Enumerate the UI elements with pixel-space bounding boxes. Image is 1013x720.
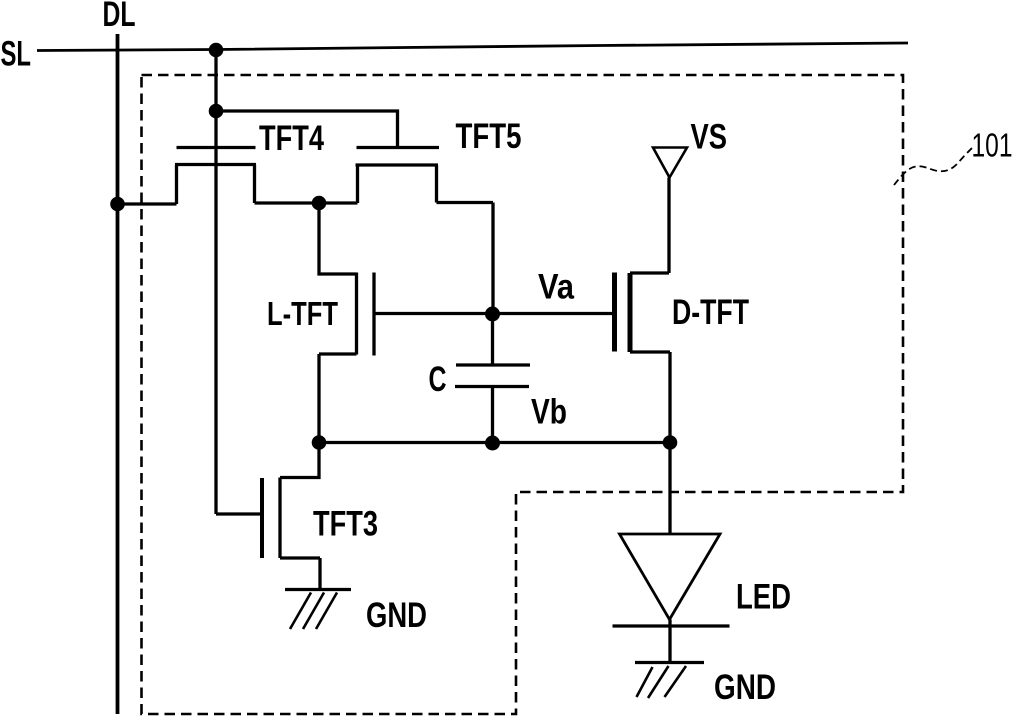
capacitor C top plate (456, 363, 530, 366)
wire: L-TFT source down to bottom rail (319, 354, 357, 443)
wire: D-TFT source lead (630, 352, 670, 443)
node: dot bottom rail right (663, 435, 678, 450)
transistor TFT5 gate bar (357, 146, 440, 149)
transistor TFT3 gate bar (260, 478, 264, 558)
transistor L-TFT channel bar (355, 273, 358, 355)
ground GND left bar (285, 588, 351, 591)
ground GND right slash 1 (665, 666, 687, 697)
ground GND right bar (635, 661, 704, 664)
wire: TFT3 drain lead (280, 443, 319, 478)
ground GND left slash 2 (303, 593, 324, 630)
svg-text:101: 101 (972, 127, 1013, 164)
ground GND right slash 3 (637, 667, 653, 697)
transistor TFT4 channel bar (175, 163, 256, 166)
wire: node Va to D-TFT gate (493, 312, 613, 315)
svg-text:Vb: Vb (531, 393, 567, 432)
svg-text:VS: VS (691, 118, 728, 157)
wire: SL branch vertical down to TFT3 gate (214, 50, 217, 514)
capacitor C bottom lead (491, 387, 494, 444)
wire: DL to TFT4 source (118, 202, 177, 205)
wire: TFT5 drain to Va column (437, 203, 494, 315)
capacitor C top lead (491, 314, 494, 365)
data line DL (116, 34, 120, 714)
svg-text:TFT5: TFT5 (456, 117, 522, 156)
node Va dot (485, 307, 500, 322)
node: dot at L-TFT branch (312, 196, 327, 211)
transistor TFT4 source stub (175, 165, 178, 205)
node: dot on DL (110, 197, 125, 212)
svg-text:L-TFT: L-TFT (267, 295, 338, 332)
power VS triangle (653, 148, 687, 178)
node: branch dot at TFT5 gate tee (209, 104, 224, 119)
wire: LED anode lead (668, 443, 671, 535)
wire: L-TFT drain from dot (319, 203, 357, 274)
transistor TFT5 drain stub (435, 165, 438, 203)
svg-text:GND: GND (714, 668, 776, 707)
node: dot bottom rail under C (485, 436, 500, 451)
diode LED triangle (620, 534, 721, 620)
wire: TFT5 gate lead (216, 111, 398, 147)
svg-text:TFT4: TFT4 (259, 119, 324, 158)
svg-text:LED: LED (736, 578, 791, 617)
diode LED cathode bar (613, 624, 730, 627)
wire: L-TFT gate lead to node Va (374, 312, 493, 315)
ground GND left slash 3 (290, 593, 311, 630)
wire: D-TFT drain lead (630, 178, 669, 274)
ground GND right slash 2 (648, 666, 669, 698)
svg-text:SL: SL (1, 35, 32, 74)
wire: bottom rail (319, 441, 670, 444)
wire: LED cathode to ground (668, 620, 671, 663)
svg-text:Va: Va (538, 268, 574, 307)
transistor TFT5 source stub (356, 165, 359, 203)
svg-text:D-TFT: D-TFT (672, 293, 749, 332)
capacitor C bottom plate (455, 385, 529, 388)
node: SL junction dot (209, 43, 224, 58)
wire: TFT3 source lead (280, 558, 320, 590)
leader squiggle to 101 (894, 148, 972, 185)
transistor TFT3 channel bar (278, 478, 281, 559)
transistor L-TFT gate bar (372, 273, 375, 356)
svg-text:GND: GND (366, 596, 427, 635)
ground GND left slash 1 (316, 593, 337, 630)
transistor D-TFT channel bar (628, 273, 633, 352)
transistor TFT4 drain stub (253, 165, 256, 204)
node: dot bottom rail left (312, 435, 327, 450)
wire: TFT3 gate lead (216, 512, 260, 515)
svg-text:C: C (429, 360, 447, 399)
svg-text:DL: DL (103, 0, 136, 34)
svg-text:TFT3: TFT3 (313, 505, 378, 544)
dashed pixel boundary box 101 (142, 75, 904, 714)
scan line SL (37, 43, 908, 51)
wire: TFT4 drain to TFT5 source (255, 201, 358, 204)
transistor TFT4 gate bar (177, 146, 256, 149)
transistor D-TFT gate bar (612, 273, 617, 352)
transistor TFT5 channel bar (356, 163, 439, 166)
